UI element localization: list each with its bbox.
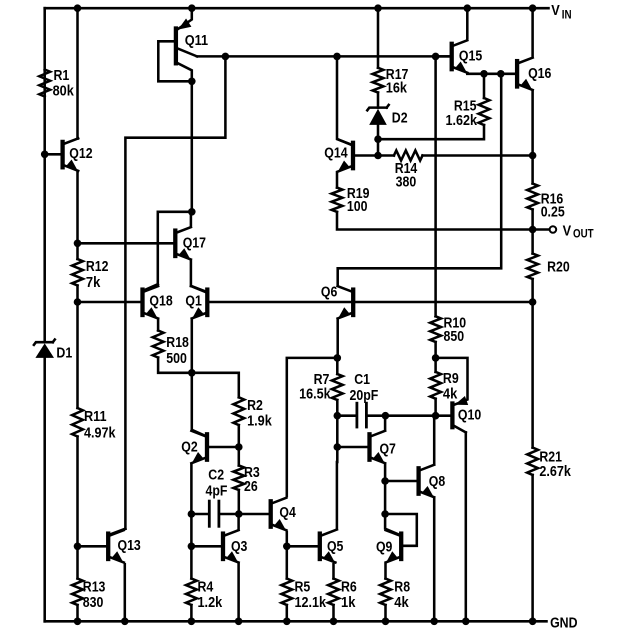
wire Q15 base lead [436, 55, 450, 58]
transistor Q1 [192, 286, 208, 319]
label R17 value 16k [386, 81, 408, 97]
wire R17 bottom to D2 [377, 93, 380, 108]
svg-text:Q9: Q9 [376, 540, 392, 556]
svg-text:IN: IN [562, 10, 572, 22]
node Q3 base junction [188, 543, 196, 551]
wire Q14 collector from Q11c rail [337, 56, 352, 145]
wire R21 bottom to GND [531, 475, 534, 621]
svg-text:C2: C2 [208, 468, 224, 484]
wire Q8 base [385, 480, 417, 483]
label C2 [208, 468, 224, 484]
svg-text:Q2: Q2 [181, 439, 197, 455]
capacitor C2 [191, 501, 238, 526]
svg-text:R11: R11 [84, 409, 107, 425]
node Q17c junction [188, 208, 196, 216]
label R6 [341, 580, 357, 596]
resistor R15 [479, 98, 490, 125]
label Q2 [181, 439, 197, 455]
label R11 value 4.97k [84, 426, 116, 442]
label R21 value 2.67k [539, 464, 571, 480]
label R15 [454, 99, 477, 115]
node VIN/R17 junction [374, 4, 382, 12]
svg-text:0.25: 0.25 [541, 205, 565, 221]
transistor Q11 base bar [174, 29, 178, 64]
svg-text:R9: R9 [443, 371, 459, 387]
svg-text:R4: R4 [198, 580, 214, 596]
wire Q8 emitter to GND [433, 499, 436, 621]
label R18 [166, 335, 189, 351]
node D2/Q14-base junction [374, 152, 382, 160]
wire Q11 collector 1 angle [177, 48, 197, 56]
wire R12 bottom to R11 [76, 286, 79, 409]
wire Q5 base [287, 545, 318, 548]
wire Q3 base [191, 545, 222, 548]
node R20/base-line junction [529, 298, 537, 306]
svg-text:Q13: Q13 [118, 538, 141, 554]
svg-text:Q18: Q18 [149, 294, 172, 310]
diode D1 (zener) [34, 340, 55, 358]
label R11 [84, 409, 107, 425]
transistor Q2 [191, 431, 207, 464]
transistor Q16 [517, 58, 533, 91]
wire Q7 base [337, 446, 368, 449]
svg-text:4k: 4k [394, 595, 409, 611]
wire R18 bottom corner to node [158, 358, 192, 373]
svg-text:R13: R13 [83, 580, 106, 596]
resistor R2 [233, 397, 244, 425]
wire R8 bottom to GND [384, 605, 387, 621]
resistor R5 [281, 579, 292, 606]
node Q16e/R14 junction [529, 152, 537, 160]
label Q8 [429, 474, 445, 490]
wire R4 bottom to GND [190, 605, 193, 621]
wire R16 bottom to VOUT node [531, 210, 534, 230]
resistor R7 [332, 374, 343, 400]
node Q8 base junction [381, 477, 389, 485]
svg-text:1.2k: 1.2k [198, 595, 224, 611]
wire Q1 emitter down [191, 320, 194, 373]
wire Q4 emitter down [286, 532, 289, 546]
label R3 [244, 465, 260, 481]
wire D2 bottom [377, 125, 380, 156]
label R7 [314, 372, 330, 388]
svg-text:380: 380 [396, 175, 417, 191]
transistor Q7 [370, 431, 386, 464]
resistor R17 [373, 68, 384, 93]
wire R11 bottom to R13 [76, 437, 79, 579]
wire R19 bottom to VOUT line [337, 212, 530, 230]
svg-text:Q7: Q7 [380, 442, 396, 458]
resistor R13 [72, 579, 83, 606]
label R2 value 1.9k [247, 414, 273, 430]
wire Q4e node to R5 [286, 546, 289, 578]
label Q5 [327, 539, 343, 555]
svg-text:Q10: Q10 [458, 408, 481, 424]
wire Q4 collector up to R7 line [287, 358, 338, 496]
node R4/GND junction [188, 618, 196, 626]
svg-text:R1: R1 [54, 68, 70, 84]
wire R2 bottom to Q2 base node [238, 425, 241, 447]
transistor Q4 [271, 498, 287, 531]
node C1/Q7-collector junction [382, 412, 390, 420]
svg-text:20pF: 20pF [350, 388, 379, 404]
wire Q2 emitter down to C2 node [190, 464, 193, 514]
wire Q16 emitter down to R16 [531, 91, 534, 183]
label Q13 [118, 538, 141, 554]
svg-text:7k: 7k [86, 275, 101, 291]
label Q12 [69, 146, 92, 162]
label Q10 [458, 408, 481, 424]
wire R3 bottom to C2 node [238, 490, 241, 514]
label R19 value 100 [347, 199, 368, 215]
svg-text:Q14: Q14 [324, 146, 347, 162]
terminal VOUT circle [550, 226, 557, 233]
node VIN/Q16 junction [529, 4, 537, 12]
label Q15 [459, 49, 482, 65]
wire Q7base node down to Q5 collector [336, 447, 339, 462]
wire Q3 collector up to C2 node [237, 514, 240, 528]
svg-text:4.97k: 4.97k [84, 426, 116, 442]
svg-text:2.67k: 2.67k [539, 464, 571, 480]
svg-text:1.9k: 1.9k [247, 414, 273, 430]
wire Q11 base loop [158, 41, 192, 81]
wire Q6 collector riser to Q16 base line [338, 74, 502, 285]
svg-text:R12: R12 [86, 259, 109, 275]
label Q16 [528, 66, 551, 82]
resistor R11 [72, 408, 83, 437]
wire C2 node to Q4 base [239, 513, 270, 516]
node R7-top/Q6e junction [334, 354, 342, 362]
node R12/R11/Q18-base junction [74, 298, 82, 306]
node R21/GND junction [529, 618, 537, 626]
label R17 [386, 67, 409, 83]
label D2 [392, 111, 408, 127]
svg-text:Q5: Q5 [327, 539, 343, 555]
svg-text:Q8: Q8 [429, 474, 445, 490]
label R12 value 7k [86, 275, 101, 291]
svg-text:R2: R2 [247, 398, 263, 414]
svg-text:D1: D1 [56, 346, 72, 362]
label Q4 [279, 505, 295, 521]
svg-text:R6: R6 [341, 580, 357, 596]
svg-text:R20: R20 [547, 259, 570, 275]
node Q13 base junction [74, 543, 82, 551]
label Q7 [380, 442, 396, 458]
wire Q13 emitter to GND [124, 564, 127, 621]
svg-text:Q11: Q11 [185, 33, 208, 49]
node VOUT junction [529, 226, 537, 234]
label R10 [444, 316, 467, 332]
label R5 [295, 580, 311, 596]
svg-text:100: 100 [347, 199, 368, 215]
wire R7 bottom to C1 node [336, 400, 339, 416]
capacitor C1 [337, 403, 385, 427]
label D1 [56, 346, 72, 362]
label R9 value 4k [443, 387, 458, 403]
wire top V_IN rail [45, 7, 549, 10]
resistor R6 [328, 579, 339, 606]
wire R14 right lead to Q16 emitter [423, 154, 533, 157]
svg-text:Q15: Q15 [459, 49, 482, 65]
svg-text:12.1k: 12.1k [295, 595, 327, 611]
transistor Q12 [63, 138, 79, 171]
wire C1 line to R9 node [385, 414, 435, 417]
wire R13 bottom to GND [76, 605, 79, 621]
label C1 value 20pF [350, 388, 379, 404]
transistor Q5 [320, 534, 336, 563]
svg-text:Q17: Q17 [183, 236, 206, 252]
label R13 [83, 580, 106, 596]
wire Q13 collector angle [109, 529, 125, 535]
wire Q16 collector to VIN [531, 8, 534, 55]
wire Q15 emitter line to Q16 base [467, 73, 515, 76]
wire R10 bottom [434, 342, 437, 358]
node R15/Q16-base junction [480, 70, 488, 78]
wire Q14 base to R14 node [355, 154, 376, 157]
wire Q14 emitter to R19 [336, 172, 339, 187]
node Q11 base/collector2 junction [188, 78, 196, 86]
wire Q3-base node to R4 [190, 546, 193, 578]
node left-rail/Q12-base junction [41, 151, 49, 159]
wire Q17c to Q18 collector corner [158, 212, 192, 284]
node Q9 collector junction [381, 510, 389, 518]
wire Q5 collector angle [321, 530, 337, 536]
wire VOUT node to R20 [531, 230, 534, 254]
node R18/Q1e/Q2c junction [188, 369, 196, 377]
svg-text:V: V [551, 2, 560, 19]
label R5 value 12.1k [295, 595, 327, 611]
label Q3 [231, 539, 247, 555]
svg-text:80k: 80k [53, 84, 75, 100]
wire R15 top [483, 74, 486, 98]
node R8/GND junction [382, 618, 390, 626]
resistor R20 [527, 254, 538, 280]
label Q1 [185, 294, 201, 310]
wire VOUT stub [533, 228, 550, 231]
label R20 [547, 259, 570, 275]
wire Q2e/Q3-base down [190, 514, 193, 546]
label R16 [541, 192, 564, 208]
label C1 [354, 372, 370, 388]
wire R15 bottom line [378, 125, 484, 139]
wire Q11c branch down/left/down to Q13 [125, 56, 225, 528]
svg-text:R18: R18 [166, 335, 189, 351]
resistor R14 (horizontal) [394, 151, 423, 161]
node R9/Q10-base junction [432, 412, 440, 420]
wire Q11 collector2 down to Q17 node [191, 81, 194, 212]
transistor Q6 [338, 286, 354, 319]
resistor R3 [233, 466, 244, 491]
svg-text:R8: R8 [394, 580, 410, 596]
node Q13e/GND junction [121, 618, 129, 626]
svg-text:Q6: Q6 [321, 284, 337, 300]
node R2/R3/Q2-base junction [235, 443, 243, 451]
wire Q11 collector 2 angle [177, 63, 192, 82]
transistor Q17 [175, 227, 191, 260]
wire R5 bottom to GND [286, 605, 289, 621]
svg-text:16k: 16k [386, 81, 408, 97]
label Q17 [183, 236, 206, 252]
wire Q10 collector to GND [465, 432, 468, 621]
transistor Q10 base bar [450, 404, 454, 428]
node Q7 base junction [334, 443, 342, 451]
node Q4e/Q5-base/R5 junction [283, 543, 291, 551]
transistor Q10 (PNP) emitter arrow [455, 396, 468, 405]
svg-text:16.5k: 16.5k [299, 387, 331, 403]
wire C1 node down to Q7 base node [336, 416, 339, 447]
svg-text:4pF: 4pF [206, 483, 228, 499]
wire Q15 base down to R10 [434, 56, 437, 316]
label Q11 [185, 33, 208, 49]
resistor R10 [430, 316, 441, 342]
wire R17 top [377, 8, 380, 68]
node R12 top / Q17 base junction [74, 240, 82, 248]
label R7 value 16.5k [299, 387, 331, 403]
svg-text:4k: 4k [443, 387, 458, 403]
label VOUT [563, 222, 594, 240]
wire Q12 base from left rail [45, 153, 61, 156]
svg-text:1k: 1k [341, 595, 356, 611]
label Q18 [149, 294, 172, 310]
label R1 value 80k [53, 84, 75, 100]
label C2 value 4pF [206, 483, 228, 499]
wire Q2 collector from R18 node [192, 373, 206, 436]
svg-text:Q1: Q1 [185, 294, 201, 310]
svg-text:850: 850 [444, 329, 465, 345]
wire Q6 emitter down [336, 320, 339, 358]
transistor Q9 [386, 530, 402, 563]
transistor Q15 [452, 40, 468, 73]
node Q15 base junction [432, 53, 440, 61]
svg-text:Q12: Q12 [69, 146, 92, 162]
svg-text:1.62k: 1.62k [446, 113, 478, 129]
node D2/R15-line junction [374, 135, 382, 143]
diode D2 (zener) [367, 105, 388, 125]
svg-text:26: 26 [244, 479, 258, 495]
node Q16-base/riser junction [497, 70, 505, 78]
label R9 [443, 371, 459, 387]
label R14 [395, 161, 418, 177]
transistor Q14 [337, 139, 353, 172]
label R12 [86, 259, 109, 275]
label R15 value 1.62k [446, 113, 478, 129]
wire Q13 base [78, 545, 107, 548]
wire Q9 collector down [385, 514, 400, 535]
resistor R9 [430, 372, 441, 399]
node R10/R9/Q10e junction [432, 354, 440, 362]
wire R14 left lead [378, 154, 394, 157]
wire Q12 collector from VIN rail [76, 8, 79, 138]
wire base-line node to R21 [531, 302, 534, 448]
wire Q5 collector up to R7 column [336, 462, 339, 528]
resistor R18 [153, 331, 164, 358]
transistor Q8 [419, 465, 435, 498]
transistor Q11 (PNP) emitter arrow [178, 19, 191, 30]
wire R7 top lead [336, 358, 339, 374]
wire Q10 base [436, 414, 451, 417]
label R4 [198, 580, 214, 596]
label R4 value 1.2k [198, 595, 224, 611]
label R1 [54, 68, 70, 84]
node Q14 collector junction [333, 53, 341, 61]
wire Q10 collector angle [453, 426, 465, 433]
label R8 value 4k [394, 595, 409, 611]
node R7/C1 junction [334, 412, 342, 420]
wire Q18 collector angle [144, 284, 158, 290]
node C2/R3/Q4-base junction [235, 510, 243, 518]
resistor R1 [39, 70, 50, 97]
wire Q18 base line [78, 301, 142, 304]
node VIN/Q12 junction [74, 4, 82, 12]
label R6 value 1k [341, 595, 356, 611]
wire R3 top [238, 447, 241, 466]
wire Q7 emitter down [384, 465, 387, 514]
wire Q2 base [208, 446, 239, 449]
wire Q11 collector 1 rail (to Q15 base) [197, 55, 450, 58]
label Q14 [324, 146, 347, 162]
label Q9 [376, 540, 392, 556]
node VIN/Q11 emitter junction [188, 4, 196, 12]
label R21 [539, 449, 562, 465]
svg-text:Q4: Q4 [279, 505, 295, 521]
node Q8e/GND junction [430, 618, 438, 626]
label R16 value 0.25 [541, 205, 565, 221]
wire Q17 base from R12 node [78, 242, 174, 245]
label Q6 [321, 284, 337, 300]
wire Q8 collector up to R9 node [433, 416, 436, 464]
resistor R21 [527, 448, 538, 475]
svg-text:GND: GND [550, 615, 577, 631]
resistor R4 [186, 579, 197, 606]
wire R9 bottom to node [434, 399, 437, 416]
svg-text:D2: D2 [392, 111, 408, 127]
wire Q15 collector to VIN [466, 8, 469, 38]
wire Q3 emitter to GND [237, 564, 240, 621]
wire R9 top [434, 358, 437, 372]
node R13/GND junction [74, 618, 82, 626]
wire Q11 emitter lead [178, 8, 192, 29]
wire R6 bottom to GND [332, 605, 335, 621]
wire Q17 emitter down to Q1 collector [190, 261, 193, 286]
wire Q12 emitter down to R12 [76, 173, 79, 260]
wire R20 bottom to base-line [531, 279, 534, 302]
node VIN/Q15 junction [464, 4, 472, 12]
svg-text:830: 830 [83, 595, 104, 611]
svg-text:500: 500 [166, 351, 187, 367]
label R19 [347, 186, 370, 202]
node C2 left junction [188, 510, 196, 518]
resistor R8 [380, 579, 391, 606]
resistor R12 [72, 259, 83, 286]
svg-text:Q3: Q3 [231, 539, 247, 555]
transistor Q3 [223, 530, 239, 563]
wire Q18 emitter to R18 [157, 320, 160, 331]
svg-text:OUT: OUT [573, 228, 594, 240]
wire Q5 emitter to R6 [332, 564, 335, 578]
label VIN [551, 2, 571, 22]
svg-text:C1: C1 [354, 372, 370, 388]
wire Q9 emitter to R8 [384, 564, 387, 578]
label R2 [247, 398, 263, 414]
label R14 value 380 [396, 175, 417, 191]
label R18 value 500 [166, 351, 187, 367]
node Q10c/GND junction [462, 618, 470, 626]
label R8 [394, 580, 410, 596]
wire Q1 collector angle [191, 286, 206, 292]
resistor R16 [527, 184, 538, 210]
transistor Q13 [108, 530, 124, 563]
node R5/GND junction [283, 618, 291, 626]
